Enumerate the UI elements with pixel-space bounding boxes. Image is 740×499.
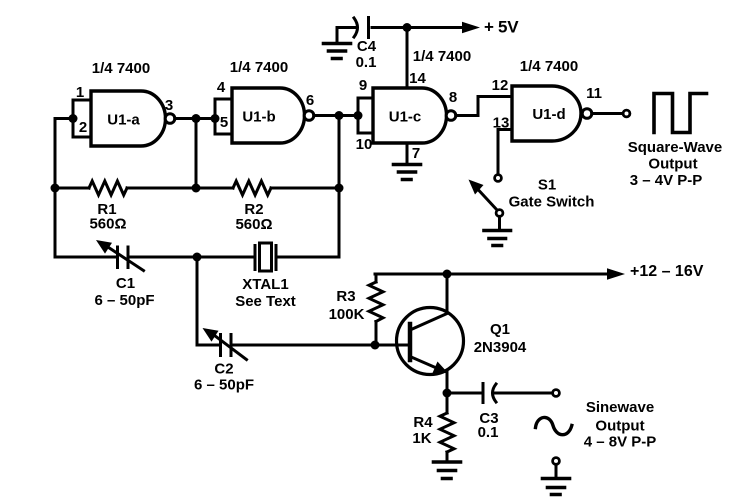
svg-text:U1-b: U1-b	[242, 109, 275, 126]
svg-text:U1-c: U1-c	[389, 109, 422, 126]
wire C1 row left	[55, 256, 115, 259]
ground output riser	[555, 464, 558, 478]
op-amp U1-c NAND gate body	[373, 88, 447, 143]
svg-text:Output: Output	[595, 418, 644, 435]
node U1-b output bubble	[304, 111, 314, 121]
svg-text:7: 7	[412, 145, 420, 162]
node S1 upper contact	[495, 175, 502, 182]
node base junction	[371, 341, 380, 350]
svg-text:100K: 100K	[329, 306, 365, 323]
ground S1 riser	[498, 216, 501, 230]
wire R3 bottom to base node	[375, 322, 378, 346]
svg-text:0.1: 0.1	[356, 54, 377, 71]
wire +12-16V rail	[375, 273, 608, 276]
node output-3 junction	[192, 114, 201, 123]
svg-text:4: 4	[217, 79, 226, 96]
svg-text:6: 6	[306, 92, 314, 109]
node output ground terminal	[553, 458, 560, 465]
svg-text:4 – 8V P-P: 4 – 8V P-P	[584, 434, 657, 451]
wire U1-c pins 9-10 tie bracket	[358, 98, 373, 133]
node U1-c input junction	[354, 111, 363, 120]
op-amp U1-b NAND gate body	[232, 88, 304, 143]
resistor R4	[440, 413, 454, 452]
node collector rail junction	[443, 270, 452, 279]
wire pin 8 to pin 12 jog	[456, 97, 512, 116]
capacitor C4 left wire	[337, 26, 357, 29]
wire emitter node to C3	[447, 392, 481, 395]
ground C4 symbol	[324, 44, 351, 59]
capacitor C2 trimmer arrow shaft	[211, 333, 247, 360]
capacitor C1 trimmer arrowhead	[96, 240, 112, 254]
svg-text:2N3904: 2N3904	[474, 339, 527, 356]
wire U1-a pins 1-2 tie bracket	[73, 100, 91, 137]
wire C2 to base node	[234, 344, 410, 347]
transistor Q1 base bar	[408, 324, 413, 360]
wire emitter node to R4	[446, 393, 449, 413]
svg-text:10: 10	[356, 136, 373, 153]
svg-text:14: 14	[409, 70, 426, 87]
wire R3 top to rail corner	[375, 274, 378, 282]
svg-text:12: 12	[492, 77, 509, 94]
node emitter junction	[443, 389, 452, 398]
svg-text:560Ω: 560Ω	[235, 216, 272, 233]
svg-text:1/4 7400: 1/4 7400	[92, 60, 150, 77]
svg-text:+ 5V: + 5V	[484, 18, 519, 37]
crystal XTAL1 box	[260, 243, 272, 271]
node U1-c output bubble	[446, 111, 456, 121]
wire R1 row	[55, 187, 233, 190]
switch S1 arm arrowhead	[469, 180, 484, 195]
wire C1 to XTAL junction	[131, 256, 256, 259]
node R1-R2 middle junction	[192, 184, 201, 193]
capacitor C1 plates	[118, 247, 129, 268]
ground output symbol	[543, 479, 570, 495]
svg-text:3: 3	[165, 97, 173, 114]
wire pin 14 to +5V rail	[406, 28, 409, 89]
svg-text:Gate Switch: Gate Switch	[509, 194, 595, 211]
wire U1-a input feed	[55, 117, 73, 120]
node R1 left junction	[51, 184, 60, 193]
wire junction 3 down to R1-R2 row	[195, 119, 198, 189]
capacitor C3 straight plate	[482, 384, 485, 403]
power +12-16V arrowhead	[607, 268, 625, 279]
op-amp U1-a NAND gate body	[91, 91, 165, 146]
wire C2 branch down and right	[197, 257, 218, 345]
node U1-b input junction	[211, 114, 220, 123]
ground C4 riser	[336, 28, 339, 44]
transistor Q1 collector lead	[410, 274, 447, 330]
ground R4 symbol	[434, 462, 461, 479]
svg-text:6 – 50pF: 6 – 50pF	[94, 292, 154, 309]
svg-text:8: 8	[449, 89, 457, 106]
wire pin 7 to ground	[406, 143, 409, 165]
svg-text:XTAL1: XTAL1	[242, 276, 288, 293]
svg-text:3 – 4V P-P: 3 – 4V P-P	[630, 172, 703, 189]
node C2 tap junction	[193, 253, 202, 262]
node +5V rail junction	[403, 23, 412, 32]
wire right vertical to crystal row	[279, 188, 339, 257]
svg-text:560Ω: 560Ω	[89, 216, 126, 233]
svg-text:R4: R4	[413, 414, 433, 431]
svg-text:C4: C4	[357, 38, 377, 55]
wire R2 to right junction	[271, 187, 339, 190]
wire U1-b output to U1-c input	[314, 114, 358, 117]
svg-text:13: 13	[493, 115, 510, 132]
node U1-d output bubble	[582, 109, 592, 119]
resistor R3	[369, 282, 383, 322]
svg-text:1/4 7400: 1/4 7400	[520, 58, 578, 75]
capacitor C2 trimmer arrowhead	[203, 328, 219, 342]
resistor R2	[233, 181, 271, 195]
wire pin 13 stub down to switch	[498, 130, 512, 175]
node square-wave output terminal	[623, 110, 630, 117]
capacitor C4 curved plate	[354, 18, 358, 37]
op-amp U1-d NAND gate body	[512, 86, 581, 141]
svg-text:U1-d: U1-d	[532, 106, 565, 123]
svg-text:R3: R3	[336, 288, 355, 305]
svg-text:Square-Wave: Square-Wave	[628, 139, 722, 156]
svg-text:C1: C1	[116, 275, 135, 292]
node output-6 junction	[335, 111, 344, 120]
wire R4 to ground	[446, 452, 449, 462]
svg-text:0.1: 0.1	[478, 424, 499, 441]
svg-text:9: 9	[359, 77, 367, 94]
crystal XTAL1 plates	[255, 246, 276, 270]
ground pin 7 symbol	[394, 165, 421, 180]
svg-text:1: 1	[76, 84, 84, 101]
svg-text:Sinewave: Sinewave	[586, 399, 654, 416]
resistor R1	[89, 181, 127, 195]
ground S1 symbol	[484, 231, 511, 246]
svg-text:1K: 1K	[412, 430, 431, 447]
node U1-a input junction	[69, 114, 78, 123]
waveform square-wave glyph	[654, 94, 707, 133]
wire left vertical feedback bus	[54, 119, 57, 258]
wire emitter down to node	[446, 373, 449, 394]
svg-text:C2: C2	[214, 361, 233, 378]
wire pin 11 output lead	[592, 112, 622, 115]
capacitor C2 plates	[221, 335, 232, 356]
svg-text:1/4 7400: 1/4 7400	[413, 48, 471, 65]
transistor Q1 emitter arrowhead	[433, 362, 449, 374]
capacitor C1 trimmer arrow shaft	[104, 245, 144, 271]
svg-text:1/4 7400: 1/4 7400	[230, 59, 288, 76]
svg-text:See Text: See Text	[235, 293, 296, 310]
wire +5V rail left of junction	[372, 26, 462, 29]
svg-text:U1-a: U1-a	[107, 112, 140, 129]
svg-text:S1: S1	[538, 177, 556, 194]
transistor Q1 emitter lead	[410, 357, 440, 370]
transistor Q1 circle	[397, 308, 464, 375]
svg-text:2: 2	[79, 119, 87, 136]
wire junction 6 down to R2 right	[338, 116, 341, 189]
svg-text:11: 11	[586, 85, 602, 102]
node U1-a output bubble	[165, 114, 175, 124]
capacitor C4 straight plate	[367, 18, 370, 38]
svg-text:+12 – 16V: +12 – 16V	[630, 263, 704, 280]
wire C3 to sine output terminal	[495, 392, 552, 395]
capacitor C3 curved plate	[493, 384, 497, 402]
svg-text:Output: Output	[648, 156, 697, 173]
waveform sine glyph	[536, 417, 572, 434]
wire U1-b pins 4-5 tie bracket	[215, 99, 232, 134]
svg-text:6 – 50pF: 6 – 50pF	[194, 377, 254, 394]
wire U1-a output to junction	[175, 117, 215, 120]
switch S1 arm	[479, 190, 498, 211]
svg-text:5: 5	[220, 114, 228, 131]
node R2 right junction	[335, 184, 344, 193]
svg-text:Q1: Q1	[490, 321, 510, 338]
power +5V arrowhead	[462, 22, 480, 33]
node S1 lower contact	[496, 210, 503, 217]
node sinewave output terminal	[553, 390, 560, 397]
